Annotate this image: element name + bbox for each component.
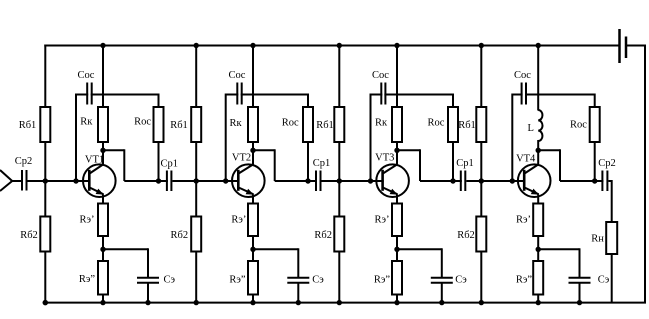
wire Rэ'' to bottom rail stage 3 xyxy=(396,294,398,303)
capacitor Cэ (stage 2) xyxy=(287,278,309,283)
wire Rэ' to emitter node stage 4 xyxy=(537,235,539,249)
wire Coc left to base node stage 1 xyxy=(76,94,88,182)
resistor Rб2 (stage 4) xyxy=(476,217,486,252)
wire Coc right to Roc top stage 1 xyxy=(91,94,159,109)
node bottom rail / Cэ stage 4 xyxy=(577,300,582,305)
node bottom rail / Cэ stage 3 xyxy=(439,300,444,305)
wire top rail to Rб1 stage 4 xyxy=(480,46,482,109)
node base divider stage 4 xyxy=(479,178,484,183)
capacitor Cp1 (after stage 1) xyxy=(167,171,172,192)
wire Rб2 to bottom rail stage 3 xyxy=(338,251,340,303)
transistor VT2 xyxy=(232,150,265,204)
node bottom rail / Cэ stage 1 xyxy=(145,300,150,305)
node base divider stage 2 xyxy=(194,178,199,183)
svg-text:Rб2: Rб2 xyxy=(20,230,38,241)
node bottom rail / Rб2 stage 3 xyxy=(337,300,342,305)
svg-text:Cp1: Cp1 xyxy=(313,158,331,169)
wire collector to output stage 4 xyxy=(538,149,603,181)
svg-text:Cp2: Cp2 xyxy=(15,156,33,167)
node base divider stage 3 xyxy=(337,178,342,183)
wire signal line to Rб2 stage 4 xyxy=(480,181,482,218)
wire input to Cp2 xyxy=(12,180,22,182)
node top rail / Rб1 stage 3 xyxy=(337,43,342,48)
svg-text:Rк: Rк xyxy=(375,118,388,129)
svg-text:Cэ: Cэ xyxy=(312,275,324,286)
wire base stage 3 xyxy=(371,180,384,182)
svg-text:Cэ: Cэ xyxy=(164,275,176,286)
node emitter divider stage 3 xyxy=(394,247,399,252)
resistor Rэ'' (stage 4) xyxy=(533,261,543,295)
node top rail / Rб1 stage 2 xyxy=(194,43,199,48)
wire top rail to collector load stage 2 xyxy=(252,46,254,109)
svg-text:Rэ”: Rэ” xyxy=(79,274,96,285)
node bottom rail / Rэ'' stage 1 xyxy=(100,300,105,305)
node base divider stage 1 xyxy=(43,178,48,183)
resistor Rб1 (stage 2) xyxy=(191,107,201,142)
resistor Rн (load) xyxy=(606,222,617,254)
node base / Coc stage 2 xyxy=(223,178,228,183)
wire emitter node to Cэ stage 3 xyxy=(397,248,442,277)
node base / Coc stage 4 xyxy=(510,178,515,183)
wire Cp1 to stage 3 base network xyxy=(322,180,384,182)
svg-text:Rб2: Rб2 xyxy=(314,230,332,241)
wire top power rail xyxy=(44,45,619,47)
wire Rн to bottom rail xyxy=(611,253,613,303)
svg-text:Rэ”: Rэ” xyxy=(374,274,391,285)
wire collector to output stage 1 xyxy=(103,149,168,181)
capacitor Cэ (stage 3) xyxy=(431,278,453,283)
wire Rб1 to signal line stage 1 xyxy=(44,141,46,181)
wire top rail to collector load stage 1 xyxy=(102,46,104,109)
wire Roc to output node stage 3 xyxy=(452,141,454,181)
node bottom rail / Rб2 stage 1 xyxy=(43,300,48,305)
wire right edge (battery negative to bottom rail) xyxy=(644,45,646,303)
svg-text:VT2: VT2 xyxy=(232,153,251,164)
resistor Rб2 (stage 2) xyxy=(191,217,201,252)
wire Rэ' to emitter node stage 2 xyxy=(252,235,254,249)
svg-text:Rэ’: Rэ’ xyxy=(516,215,531,226)
node top rail / collector load stage 2 xyxy=(250,43,255,48)
wire top rail to collector load stage 3 xyxy=(396,46,398,109)
wire Coc right to Roc top stage 3 xyxy=(384,94,453,109)
node collector VT4 xyxy=(536,148,541,153)
capacitor Coc (stage 2) xyxy=(237,83,241,105)
wire Roc to output node stage 1 xyxy=(158,141,160,181)
capacitor Cp2 (after stage 4) xyxy=(602,171,607,192)
node top rail / collector load stage 1 xyxy=(100,43,105,48)
wire emitter node to Rэ'' stage 1 xyxy=(102,249,104,262)
svg-text:VT4: VT4 xyxy=(516,153,536,164)
svg-text:Cp1: Cp1 xyxy=(456,158,474,169)
node output / Roc stage 3 xyxy=(450,178,455,183)
wire bottom common rail xyxy=(44,302,646,304)
wire emitter node to Rэ'' stage 2 xyxy=(252,249,254,262)
wire collector to output stage 3 xyxy=(397,149,462,181)
resistor Rэ' (stage 1) xyxy=(98,204,108,237)
resistor Rб2 (stage 3) xyxy=(334,217,344,252)
node collector VT2 xyxy=(250,148,255,153)
svg-text:Cэ: Cэ xyxy=(455,275,467,286)
svg-text:Roc: Roc xyxy=(282,117,299,128)
svg-text:Coc: Coc xyxy=(78,70,95,81)
wire Rб2 to bottom rail stage 1 xyxy=(44,251,46,303)
wire Cp1 to stage 2 base network xyxy=(172,180,239,182)
capacitor Cэ (stage 4) xyxy=(569,278,591,283)
node emitter divider stage 4 xyxy=(536,247,541,252)
node emitter divider stage 1 xyxy=(100,247,105,252)
wire Cэ to bottom rail stage 4 xyxy=(579,283,581,303)
wire L to collector node stage 4 xyxy=(537,140,539,150)
wire Coc left to base node stage 4 xyxy=(512,94,522,182)
wire Roc to output node stage 4 xyxy=(594,141,596,181)
node bottom rail / Rб2 stage 2 xyxy=(194,300,199,305)
wire Cp2 output to Rн xyxy=(608,180,611,223)
wire signal line to Rб2 stage 1 xyxy=(44,181,46,218)
transistor VT4 xyxy=(518,150,551,204)
wire Rэ' to emitter node stage 1 xyxy=(102,235,104,249)
wire top rail to collector load stage 4 xyxy=(537,46,539,111)
resistor Roc (stage 1) xyxy=(154,107,164,142)
wire signal line to Rб2 stage 3 xyxy=(338,181,340,218)
wire emitter node to Rэ'' stage 3 xyxy=(396,249,398,262)
node bottom rail / Rэ'' stage 2 xyxy=(250,300,255,305)
svg-text:Cp1: Cp1 xyxy=(160,158,178,169)
node collector VT3 xyxy=(394,148,399,153)
node base / Coc stage 1 xyxy=(73,178,78,183)
node top rail / collector load stage 3 xyxy=(394,43,399,48)
node bottom rail / Cэ stage 2 xyxy=(296,300,301,305)
capacitor Cp2 (input coupling) xyxy=(22,170,27,191)
svg-text:Cэ: Cэ xyxy=(598,275,610,286)
wire Rб2 to bottom rail stage 4 xyxy=(480,251,482,303)
node output / Roc stage 2 xyxy=(305,178,310,183)
node output / Roc stage 4 xyxy=(592,178,597,183)
resistor Rк (stage 1) xyxy=(98,107,108,142)
capacitor Cэ (stage 1) xyxy=(137,278,159,283)
wire Rб1 column stage 1 (from top-left corner) xyxy=(44,45,46,109)
wire Roc to output node stage 2 xyxy=(307,141,309,181)
transistor VT1 xyxy=(83,150,116,204)
node collector VT1 xyxy=(100,148,105,153)
capacitor Cp1 (after stage 2) xyxy=(316,171,321,192)
wire Cэ to bottom rail stage 3 xyxy=(441,283,443,303)
node bottom rail / Rб2 stage 4 xyxy=(479,300,484,305)
svg-text:Cp2: Cp2 xyxy=(598,158,616,169)
wire collector to output stage 2 xyxy=(253,149,317,181)
wire Rэ'' to bottom rail stage 2 xyxy=(252,294,254,303)
wire Coc left to base node stage 3 xyxy=(371,94,383,182)
capacitor Cp1 (after stage 3) xyxy=(461,171,466,192)
wire Rэ'' to bottom rail stage 4 xyxy=(537,294,539,303)
node emitter divider stage 2 xyxy=(250,247,255,252)
svg-text:Rн: Rн xyxy=(591,233,604,244)
wire Cp1 to stage 4 base network xyxy=(466,180,525,182)
svg-text:Rб2: Rб2 xyxy=(457,230,475,241)
resistor Rэ' (stage 3) xyxy=(392,204,402,237)
svg-text:Rэ’: Rэ’ xyxy=(231,215,246,226)
capacitor Coc (stage 3) xyxy=(381,83,385,105)
wire Rб1 to signal line stage 4 xyxy=(480,141,482,181)
node base / Coc stage 3 xyxy=(368,178,373,183)
svg-text:Rэ’: Rэ’ xyxy=(374,215,389,226)
resistor Rб1 (stage 4) xyxy=(476,107,486,142)
svg-text:Rб1: Rб1 xyxy=(19,120,37,131)
svg-text:Rб1: Rб1 xyxy=(316,120,334,131)
battery GB1 xyxy=(620,29,627,63)
wire emitter node to Cэ stage 1 xyxy=(103,248,148,277)
resistor Roc (stage 2) xyxy=(303,107,313,142)
wire Cэ to bottom rail stage 2 xyxy=(297,283,299,303)
resistor Rк (stage 3) xyxy=(392,107,402,142)
resistor Rэ'' (stage 1) xyxy=(98,261,108,295)
resistor Rэ' (stage 4) xyxy=(533,204,543,237)
resistor Rэ' (stage 2) xyxy=(248,204,258,237)
svg-text:Coc: Coc xyxy=(514,70,531,81)
svg-text:Roc: Roc xyxy=(570,120,587,131)
capacitor Coc (stage 1) xyxy=(87,83,92,105)
wire top rail to Rб1 stage 2 xyxy=(195,46,197,109)
svg-text:Roc: Roc xyxy=(428,117,445,128)
svg-text:Rэ”: Rэ” xyxy=(229,274,246,285)
node bottom rail / Rэ'' stage 4 xyxy=(536,300,541,305)
wire Rэ' to emitter node stage 3 xyxy=(396,235,398,249)
wire Rк to collector node stage 3 xyxy=(396,141,398,150)
wire base stage 4 xyxy=(512,180,525,182)
wire signal line to Rб2 stage 2 xyxy=(195,181,197,218)
resistor Rк (stage 2) xyxy=(248,107,258,142)
wire Rк to collector node stage 2 xyxy=(252,141,254,150)
wire Rк to collector node stage 1 xyxy=(102,141,104,150)
capacitor Coc (stage 4) xyxy=(522,83,526,105)
svg-text:Rэ”: Rэ” xyxy=(516,275,533,286)
wire battery positive to right edge xyxy=(626,45,646,47)
svg-text:Rэ’: Rэ’ xyxy=(79,215,94,226)
wire Coc right to Roc top stage 4 xyxy=(525,94,595,109)
svg-text:Rк: Rк xyxy=(230,118,243,129)
wire Coc right to Roc top stage 2 xyxy=(241,94,308,109)
wire Rб1 to signal line stage 3 xyxy=(338,141,340,181)
resistor Rэ'' (stage 2) xyxy=(248,261,258,295)
wire Rб2 to bottom rail stage 2 xyxy=(195,251,197,303)
resistor Rэ'' (stage 3) xyxy=(392,261,402,295)
wire Cэ to bottom rail stage 1 xyxy=(147,283,149,303)
wire emitter node to Cэ stage 4 xyxy=(538,248,579,277)
svg-text:VT3: VT3 xyxy=(375,153,394,164)
resistor Roc (stage 3) xyxy=(448,107,458,142)
input terminal symbol xyxy=(0,170,12,191)
svg-text:Rб2: Rб2 xyxy=(170,230,188,241)
svg-text:Coc: Coc xyxy=(372,70,389,81)
wire Cp2 to base network xyxy=(28,180,90,182)
wire emitter node to Cэ stage 2 xyxy=(253,248,298,277)
svg-text:Rк: Rк xyxy=(80,117,93,128)
resistor Roc (stage 4) xyxy=(590,107,600,142)
resistor Rб2 (stage 1) xyxy=(40,217,50,252)
resistor Rб1 (stage 3) xyxy=(334,107,344,142)
svg-text:Rб1: Rб1 xyxy=(458,120,476,131)
node bottom-left corner xyxy=(43,300,48,305)
wire top rail to Rб1 stage 3 xyxy=(338,46,340,109)
node bottom rail / Rэ'' stage 3 xyxy=(394,300,399,305)
wire emitter node to Rэ'' stage 4 xyxy=(537,249,539,262)
wire Coc left to base node stage 2 xyxy=(226,94,239,182)
node top rail / Rб1 stage 4 xyxy=(479,43,484,48)
wire base stage 1 xyxy=(76,180,90,182)
wire base stage 2 xyxy=(226,180,240,182)
wire Rб1 to signal line stage 2 xyxy=(195,141,197,181)
svg-text:L: L xyxy=(527,123,533,134)
svg-text:VT1: VT1 xyxy=(85,154,104,165)
inductor L (stage 4) xyxy=(538,110,542,141)
wire Rэ'' to bottom rail stage 1 xyxy=(102,294,104,303)
node output / Roc stage 1 xyxy=(156,178,161,183)
svg-text:Roc: Roc xyxy=(134,117,151,128)
transistor VT3 xyxy=(376,150,409,204)
node top rail / collector load stage 4 xyxy=(536,43,541,48)
svg-text:Rб1: Rб1 xyxy=(170,120,188,131)
resistor Rб1 (stage 1) xyxy=(40,107,50,142)
svg-text:Coc: Coc xyxy=(229,70,246,81)
